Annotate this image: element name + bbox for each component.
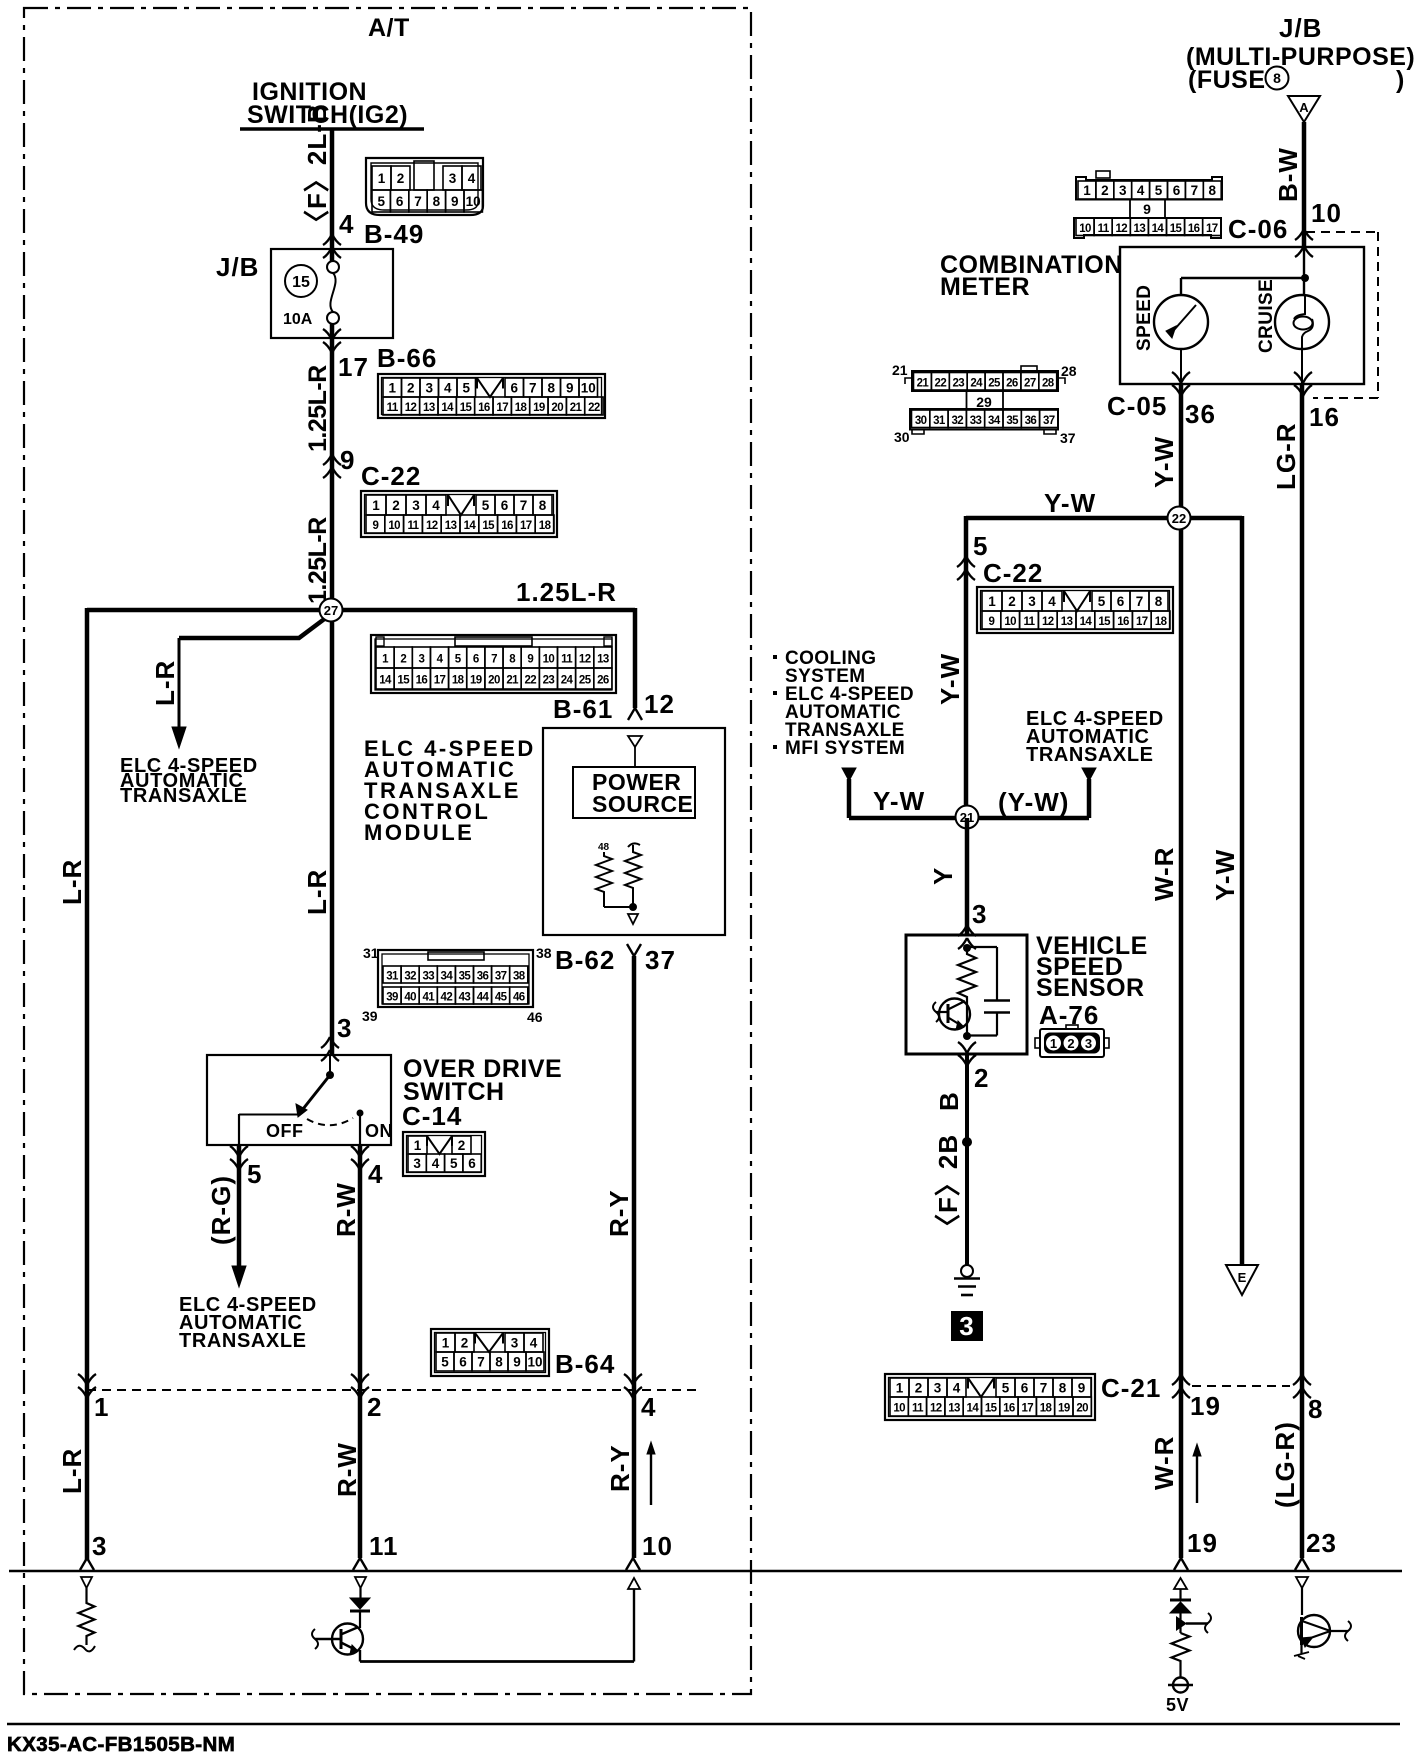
- svg-text:W-R: W-R: [1149, 847, 1179, 901]
- internal resistor R2: [625, 843, 641, 907]
- svg-text:6: 6: [1173, 183, 1181, 198]
- svg-text:6: 6: [473, 654, 479, 666]
- crossing pin 2: [351, 1374, 369, 1385]
- wire B-W: [1302, 122, 1307, 248]
- svg-text:): ): [1396, 66, 1405, 94]
- transistor Q3 body: [1298, 1615, 1330, 1647]
- svg-text:2: 2: [1008, 594, 1016, 609]
- node 27: [320, 599, 343, 622]
- svg-text:R-Y: R-Y: [605, 1444, 635, 1492]
- svg-text:21: 21: [917, 377, 930, 389]
- svg-text:13: 13: [1134, 223, 1146, 235]
- svg-text:2: 2: [407, 381, 415, 396]
- ELC 4-speed automatic transaxle control module box: [543, 728, 725, 935]
- svg-text:TRANSAXLE: TRANSAXLE: [1026, 744, 1154, 766]
- svg-text:26: 26: [1006, 377, 1018, 389]
- svg-text:2: 2: [458, 1138, 466, 1153]
- svg-text:16: 16: [1188, 223, 1200, 235]
- svg-text:38: 38: [536, 945, 552, 961]
- svg-text:7: 7: [1136, 594, 1144, 609]
- svg-text:9: 9: [373, 520, 379, 532]
- svg-text:KX35-AC-FB1505B-NM: KX35-AC-FB1505B-NM: [7, 1733, 235, 1756]
- svg-text:25: 25: [579, 675, 592, 687]
- svg-text:B-64: B-64: [555, 1349, 615, 1379]
- horizontal Y-W wire with node 22: [966, 516, 1242, 521]
- svg-text:27: 27: [324, 603, 338, 618]
- svg-text:10: 10: [527, 1355, 542, 1370]
- svg-text:L-R: L-R: [302, 869, 332, 915]
- internal diode + transistor (pin 11): [355, 1577, 366, 1588]
- over drive switch box: [207, 1055, 391, 1145]
- svg-text:8: 8: [539, 498, 547, 513]
- svg-text:22: 22: [524, 675, 536, 687]
- svg-text:3: 3: [511, 1336, 519, 1351]
- svg-text:35: 35: [1006, 415, 1019, 427]
- svg-text:33: 33: [422, 971, 434, 983]
- svg-text:18: 18: [1040, 1403, 1053, 1415]
- right feed arrow: [1082, 768, 1096, 781]
- svg-text:15: 15: [1098, 616, 1111, 628]
- svg-text:4: 4: [1137, 183, 1145, 198]
- svg-text:L-R: L-R: [57, 859, 87, 905]
- svg-text:2: 2: [397, 171, 405, 186]
- transaxle assembly top boundary line: [9, 1570, 1402, 1572]
- svg-text:9: 9: [1078, 1381, 1086, 1396]
- A/T dashed boundary box: [24, 8, 751, 1694]
- svg-text:19: 19: [1190, 1391, 1221, 1421]
- svg-text:7: 7: [529, 381, 537, 396]
- node 21: [956, 806, 979, 829]
- svg-text:L-R: L-R: [150, 660, 180, 706]
- svg-text:15: 15: [397, 675, 410, 687]
- output transistor Q3 (pin 23): [1296, 1577, 1308, 1588]
- takeoff triangle A: [1288, 96, 1320, 122]
- svg-text:27: 27: [1024, 377, 1036, 389]
- switch arm: [329, 1055, 331, 1075]
- svg-text:34: 34: [988, 415, 1001, 427]
- svg-text:11: 11: [1024, 616, 1036, 628]
- svg-text:33: 33: [970, 415, 982, 427]
- svg-text:11: 11: [408, 520, 420, 532]
- wire 16 LG-R down: [1300, 384, 1305, 1558]
- svg-text:R-Y: R-Y: [604, 1189, 634, 1237]
- svg-text:5: 5: [1098, 594, 1106, 609]
- OFF contact line: [239, 1114, 300, 1116]
- svg-text:8: 8: [1059, 1381, 1067, 1396]
- dashed boundary between pins 19 and 8: [1192, 1385, 1290, 1387]
- svg-text:10: 10: [1004, 616, 1016, 628]
- svg-text:10: 10: [466, 194, 481, 209]
- svg-text:5: 5: [377, 194, 385, 209]
- svg-text:C-14: C-14: [402, 1101, 462, 1131]
- svg-text:Y-W: Y-W: [1149, 436, 1179, 488]
- svg-text:12: 12: [426, 520, 438, 532]
- svg-text:4: 4: [641, 1392, 656, 1422]
- svg-text:C-22: C-22: [361, 461, 421, 491]
- svg-text:2: 2: [392, 498, 400, 513]
- svg-text:11: 11: [369, 1531, 399, 1561]
- svg-text:METER: METER: [940, 273, 1030, 301]
- svg-text:W-R: W-R: [1149, 1436, 1179, 1490]
- svg-text:43: 43: [459, 992, 471, 1004]
- bottom border line: [7, 1723, 1400, 1726]
- svg-text:23: 23: [543, 675, 555, 687]
- svg-text:13: 13: [948, 1403, 960, 1415]
- svg-text:12: 12: [1042, 616, 1054, 628]
- emitter wire to R-Y pin 10: [359, 1650, 361, 1662]
- svg-text:B-49: B-49: [364, 219, 424, 249]
- svg-text:2: 2: [1101, 183, 1109, 198]
- svg-text:SENSOR: SENSOR: [1036, 974, 1145, 1002]
- svg-text:39: 39: [386, 992, 398, 1004]
- svg-text:8: 8: [1308, 1394, 1323, 1424]
- svg-text:26: 26: [597, 675, 609, 687]
- svg-text:22: 22: [935, 377, 947, 389]
- svg-text:15: 15: [482, 520, 495, 532]
- svg-text:20: 20: [551, 402, 563, 414]
- svg-text:9: 9: [513, 1355, 521, 1370]
- svg-text:11: 11: [912, 1403, 924, 1415]
- svg-text:42: 42: [441, 992, 453, 1004]
- svg-text:〈F〉2L-B: 〈F〉2L-B: [302, 103, 332, 236]
- sensor internals: transistor Q2: [939, 999, 970, 1030]
- sensor internals: capacitor C1: [967, 946, 997, 948]
- svg-text:36: 36: [1025, 415, 1037, 427]
- dashed connector boundary line B-64: [87, 1389, 700, 1391]
- svg-text:31: 31: [363, 945, 379, 961]
- output triangle (pin 10): [628, 1578, 640, 1589]
- svg-text:16: 16: [478, 402, 490, 414]
- svg-text:30: 30: [915, 415, 927, 427]
- svg-text:5: 5: [1002, 1381, 1010, 1396]
- svg-text:41: 41: [422, 992, 435, 1004]
- svg-text:28: 28: [1061, 363, 1077, 379]
- svg-text:37: 37: [1043, 415, 1055, 427]
- svg-text:Y-W: Y-W: [1210, 849, 1240, 901]
- svg-text:5: 5: [247, 1159, 262, 1189]
- fuse symbol: [327, 261, 339, 273]
- svg-text:3: 3: [412, 498, 420, 513]
- svg-text:15: 15: [1170, 223, 1183, 235]
- branch to C-22 pin 5: [964, 516, 969, 818]
- svg-text:10: 10: [388, 520, 400, 532]
- svg-text:18: 18: [452, 675, 465, 687]
- svg-text:4: 4: [432, 498, 440, 513]
- svg-text:21: 21: [570, 402, 583, 414]
- left feed arrow into node 21: [842, 768, 856, 781]
- svg-text:8: 8: [547, 381, 555, 396]
- svg-text:8: 8: [1273, 70, 1281, 86]
- svg-text:15: 15: [985, 1403, 998, 1415]
- svg-text:SPEED: SPEED: [1134, 285, 1155, 351]
- svg-text:10: 10: [1311, 198, 1342, 228]
- svg-text:6: 6: [1117, 594, 1125, 609]
- svg-text:31: 31: [386, 971, 399, 983]
- vehicle speed sensor box A-76: [906, 935, 1027, 1054]
- svg-text:9: 9: [566, 381, 574, 396]
- svg-text:4: 4: [1048, 594, 1056, 609]
- svg-text:B-W: B-W: [1273, 147, 1303, 202]
- svg-text:7: 7: [1191, 183, 1199, 198]
- svg-text:13: 13: [597, 654, 609, 666]
- flow direction arrow (W-R): [1196, 1454, 1198, 1503]
- svg-text:22: 22: [588, 402, 600, 414]
- wire Y down to speed sensor: [965, 818, 970, 936]
- svg-text:J/B: J/B: [216, 252, 259, 282]
- svg-text:8: 8: [433, 194, 441, 209]
- module input triangle: [628, 736, 642, 747]
- svg-text:4: 4: [339, 209, 354, 239]
- svg-text:3: 3: [1085, 1036, 1092, 1051]
- svg-text:14: 14: [1152, 223, 1165, 235]
- svg-text:7: 7: [520, 498, 528, 513]
- svg-text:40: 40: [404, 992, 416, 1004]
- svg-text:C-06: C-06: [1228, 214, 1288, 244]
- svg-text:4: 4: [368, 1159, 383, 1189]
- svg-text:(FUSE: (FUSE: [1188, 66, 1266, 94]
- svg-text:16: 16: [501, 520, 513, 532]
- svg-text:8: 8: [1208, 183, 1216, 198]
- switch pin 4 wire R-W: [359, 1113, 361, 1145]
- svg-text:SOURCE: SOURCE: [592, 791, 693, 817]
- svg-text:2: 2: [1067, 1036, 1074, 1051]
- svg-text:3: 3: [92, 1531, 107, 1561]
- svg-text:J/B: J/B: [1279, 13, 1322, 43]
- Y-W branch to E triangle: [1240, 516, 1245, 1265]
- svg-text:17: 17: [434, 675, 446, 687]
- svg-text:1: 1: [378, 171, 386, 186]
- svg-text:(R-G): (R-G): [206, 1175, 236, 1245]
- svg-text:3: 3: [934, 1381, 942, 1396]
- branch wire to ELC transaxle (arrow): [179, 617, 327, 638]
- svg-text:4: 4: [444, 381, 452, 396]
- svg-text:6: 6: [510, 381, 518, 396]
- power source block: [573, 767, 695, 818]
- svg-text:1: 1: [988, 594, 996, 609]
- svg-text:1: 1: [94, 1392, 109, 1422]
- crossings at meter bottom (C-05): [1172, 372, 1190, 383]
- svg-text:10: 10: [642, 1531, 673, 1561]
- svg-text:3: 3: [449, 171, 457, 186]
- svg-text:1.25L-R: 1.25L-R: [304, 517, 332, 604]
- svg-text:TRANSAXLE: TRANSAXLE: [120, 785, 248, 807]
- svg-text:8: 8: [495, 1355, 503, 1370]
- svg-text:1: 1: [442, 1336, 450, 1351]
- svg-text:C-21: C-21: [1101, 1373, 1161, 1403]
- svg-text:MFI SYSTEM: MFI SYSTEM: [785, 738, 905, 759]
- svg-text:19: 19: [1058, 1403, 1070, 1415]
- wire <F>2L-B from ignition switch: [330, 129, 335, 261]
- svg-text:10A: 10A: [283, 311, 313, 328]
- svg-text:C-05: C-05: [1107, 391, 1167, 421]
- svg-text:16: 16: [416, 675, 428, 687]
- svg-text:44: 44: [477, 992, 490, 1004]
- svg-text:5: 5: [482, 498, 490, 513]
- svg-text:B-66: B-66: [377, 343, 437, 373]
- connector crossing out of J/B (B-66 pin 17): [323, 329, 341, 340]
- svg-text:37: 37: [1060, 430, 1076, 446]
- wire R-Y from B-62 pin 37: [627, 944, 641, 956]
- svg-text:10: 10: [581, 381, 596, 396]
- svg-text:9: 9: [340, 445, 355, 475]
- svg-text:2: 2: [915, 1381, 923, 1396]
- svg-text:2: 2: [461, 1336, 469, 1351]
- svg-text:10: 10: [543, 654, 555, 666]
- combination meter box: [1120, 247, 1364, 384]
- svg-text:19: 19: [470, 675, 482, 687]
- switch pin 5 wire (R-G): [238, 1114, 240, 1145]
- svg-text:ON: ON: [365, 1121, 393, 1141]
- svg-text:3: 3: [418, 654, 424, 666]
- svg-text:30: 30: [894, 429, 910, 445]
- svg-text:3: 3: [959, 1311, 974, 1341]
- svg-text:23: 23: [1306, 1528, 1337, 1558]
- svg-text:7: 7: [477, 1355, 485, 1370]
- svg-text:6: 6: [1021, 1381, 1029, 1396]
- svg-text:21: 21: [506, 675, 519, 687]
- svg-text:15: 15: [460, 402, 473, 414]
- svg-text:R-W: R-W: [332, 1442, 362, 1497]
- svg-text:31: 31: [933, 415, 946, 427]
- svg-text:2: 2: [400, 654, 406, 666]
- horizontal 1.25L-R distribution wire: [87, 608, 635, 613]
- svg-text:12: 12: [1115, 223, 1127, 235]
- svg-text:〈F〉2B: 〈F〉2B: [933, 1134, 963, 1240]
- svg-text:1.25L-R: 1.25L-R: [304, 365, 332, 452]
- svg-text:TRANSAXLE: TRANSAXLE: [179, 1330, 307, 1352]
- svg-text:10: 10: [893, 1403, 905, 1415]
- svg-text:A: A: [1299, 100, 1309, 115]
- svg-text:3: 3: [1119, 183, 1127, 198]
- svg-text:16: 16: [1117, 616, 1129, 628]
- svg-text:2: 2: [974, 1063, 989, 1093]
- svg-text:12: 12: [930, 1403, 942, 1415]
- svg-text:35: 35: [459, 971, 472, 983]
- connector C-21: [885, 1374, 1095, 1420]
- svg-text:5: 5: [973, 531, 988, 561]
- svg-text:9: 9: [527, 654, 533, 666]
- svg-text:Y-W: Y-W: [935, 653, 965, 705]
- transistor Q1: [332, 1624, 363, 1655]
- svg-text:21: 21: [892, 362, 908, 378]
- svg-text:14: 14: [441, 402, 454, 414]
- svg-text:36: 36: [1185, 399, 1216, 429]
- svg-text:C-22: C-22: [983, 558, 1043, 588]
- svg-text:2: 2: [367, 1392, 382, 1422]
- fuse rating circle 15: [285, 265, 317, 297]
- svg-text:38: 38: [513, 971, 526, 983]
- svg-text:45: 45: [495, 992, 508, 1004]
- svg-text:1: 1: [1083, 183, 1091, 198]
- svg-text:11: 11: [561, 654, 573, 666]
- svg-text:32: 32: [404, 971, 416, 983]
- svg-text:B-61: B-61: [553, 694, 613, 724]
- svg-text:MODULE: MODULE: [364, 820, 474, 845]
- junction dot in module: [604, 906, 633, 908]
- svg-text:Y-W: Y-W: [1044, 488, 1096, 518]
- svg-text:19: 19: [533, 402, 545, 414]
- svg-text:37: 37: [645, 945, 676, 975]
- svg-text:36: 36: [477, 971, 489, 983]
- svg-text:22: 22: [1172, 511, 1186, 526]
- svg-text:17: 17: [338, 352, 369, 382]
- sensor output pin 2, wire B: [958, 1042, 976, 1053]
- svg-text:3: 3: [972, 899, 987, 929]
- cruise indicator lamp: [1275, 295, 1329, 349]
- svg-text:1: 1: [372, 498, 380, 513]
- svg-text:20: 20: [1076, 1403, 1088, 1415]
- svg-text:29: 29: [976, 394, 992, 410]
- flow direction arrow (R-Y): [650, 1452, 652, 1505]
- sensor internals: resistor: [963, 944, 971, 952]
- crossing pin 1: [78, 1374, 96, 1385]
- wire from node 27 down to B-61 pin 12: [633, 608, 638, 708]
- svg-text:3: 3: [337, 1013, 352, 1043]
- svg-text:1: 1: [414, 1138, 422, 1153]
- svg-text:24: 24: [970, 377, 983, 389]
- svg-text:46: 46: [513, 992, 525, 1004]
- svg-text:4: 4: [468, 171, 476, 186]
- svg-text:12: 12: [405, 402, 417, 414]
- svg-text:5: 5: [450, 1156, 458, 1171]
- svg-text:1: 1: [896, 1381, 904, 1396]
- connector B-49: [366, 158, 483, 215]
- J/B dashed boundary (right): [1306, 231, 1378, 233]
- connector crossing into J/B (B-49 pin 4): [323, 234, 341, 245]
- E ground triangle: [1226, 1265, 1258, 1295]
- svg-text:4: 4: [432, 1156, 440, 1171]
- svg-text:20: 20: [488, 675, 500, 687]
- svg-text:13: 13: [423, 402, 435, 414]
- svg-text:Y-W: Y-W: [873, 786, 925, 816]
- system destination list: [773, 655, 777, 659]
- svg-text:13: 13: [1061, 616, 1073, 628]
- svg-text:37: 37: [495, 971, 507, 983]
- svg-text:6: 6: [396, 194, 404, 209]
- svg-text:(LG-R): (LG-R): [1270, 1421, 1300, 1508]
- wire 36 Y-W/W-R down: [1179, 384, 1184, 1558]
- svg-text:18: 18: [539, 520, 552, 532]
- svg-text:9: 9: [1143, 201, 1151, 217]
- ground reference box 3: [951, 1311, 983, 1341]
- dashed travel arc to ON: [307, 1118, 353, 1125]
- speedometer gauge: [1154, 295, 1208, 349]
- left L-R branch wire down: [85, 608, 90, 1560]
- svg-text:3: 3: [425, 381, 433, 396]
- svg-text:12: 12: [579, 654, 591, 666]
- wire continues down to overdrive switch: [330, 610, 335, 1056]
- svg-text:7: 7: [414, 194, 422, 209]
- svg-text:48: 48: [598, 842, 610, 853]
- svg-text:34: 34: [441, 971, 454, 983]
- svg-text:23: 23: [952, 377, 964, 389]
- svg-text:16: 16: [1309, 402, 1340, 432]
- svg-text:14: 14: [967, 1403, 980, 1415]
- svg-text:18: 18: [515, 402, 528, 414]
- svg-text:4: 4: [530, 1336, 538, 1351]
- svg-text:6: 6: [468, 1156, 476, 1171]
- svg-text:CRUISE: CRUISE: [1256, 279, 1277, 353]
- connector C-06: [1076, 177, 1222, 200]
- svg-text:16: 16: [1003, 1403, 1015, 1415]
- svg-text:10: 10: [1079, 223, 1091, 235]
- svg-text:5: 5: [462, 381, 470, 396]
- ground symbol: [961, 1265, 973, 1277]
- svg-text:1.25L-R: 1.25L-R: [516, 577, 617, 607]
- svg-text:E: E: [1238, 1270, 1247, 1285]
- svg-text:B: B: [934, 1091, 964, 1111]
- svg-text:LG-R: LG-R: [1271, 422, 1301, 490]
